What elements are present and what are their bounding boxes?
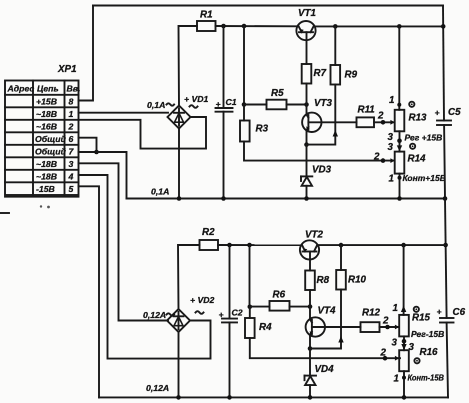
wire C5 bottom to rail <box>443 125 446 199</box>
junction bridge VD1 minus rail <box>178 128 180 199</box>
wire R13 pin1 up <box>398 26 400 109</box>
svg-text:R11: R11 <box>358 105 375 116</box>
junction right vertical <box>441 24 446 29</box>
svg-text:R2: R2 <box>202 227 215 238</box>
svg-text:~18В: ~18В <box>36 172 57 182</box>
adjust symbol R13 <box>409 102 414 107</box>
junction VT2 emitter right <box>443 243 448 248</box>
svg-text:R15: R15 <box>412 313 431 324</box>
svg-text:2: 2 <box>380 348 387 359</box>
bridge rectifier VD1 <box>168 106 191 129</box>
wiper arrow R15 <box>395 325 399 330</box>
svg-text:Конт+15Б: Конт+15Б <box>403 173 446 183</box>
junction R15 line top <box>401 243 406 248</box>
wire node A2 to R4 <box>249 307 251 318</box>
wire R6 to node B2 <box>290 306 311 308</box>
resistor R4 <box>245 318 255 338</box>
potentiometer R16 <box>399 350 409 371</box>
svg-text:Вв.: Вв. <box>67 84 81 94</box>
wire -15V bottom rail <box>99 396 448 398</box>
zener diode VD4 <box>305 349 317 398</box>
svg-text:+: + <box>437 307 442 317</box>
svg-text:~18В: ~18В <box>36 109 57 119</box>
svg-text:3: 3 <box>69 159 74 169</box>
arrow into R14 <box>397 145 402 151</box>
wire pin3 down to bridge VD2 left <box>79 163 169 320</box>
wire R13 pin3 to R14 pin3 <box>399 131 401 151</box>
resistor R8 <box>305 271 315 291</box>
frame tick left edge <box>0 212 9 214</box>
svg-text:R9: R9 <box>345 70 358 81</box>
wire R7 bottom to VT3 collector <box>306 84 308 114</box>
junction pins 6-7 <box>94 150 99 155</box>
resistor R7 <box>302 64 312 84</box>
wire node A2 to R6 <box>250 306 270 308</box>
svg-text:+15В: +15В <box>36 97 57 107</box>
wire pin6 down <box>79 138 97 152</box>
svg-text:+ VD2: + VD2 <box>190 295 215 305</box>
svg-text:Адрес: Адрес <box>7 84 35 94</box>
capacitor C2 <box>222 319 237 323</box>
svg-text:0,1А: 0,1А <box>147 100 165 110</box>
bridge rectifier VD2 <box>167 309 190 332</box>
wire R10 top <box>340 245 342 270</box>
resistor R12 <box>361 322 380 332</box>
svg-text:С1: С1 <box>226 97 237 107</box>
wiper arrow R13 <box>390 120 394 125</box>
wire R5 to node B <box>287 104 307 106</box>
svg-text:R6: R6 <box>273 290 286 301</box>
svg-text:~16В: ~16В <box>36 122 57 132</box>
arrow into R16 <box>401 344 406 350</box>
resistor R10 <box>336 270 346 290</box>
svg-text:VD3: VD3 <box>312 165 332 176</box>
transistor VT3 <box>302 113 321 132</box>
svg-text:1: 1 <box>69 109 74 119</box>
svg-text:+: + <box>216 99 221 109</box>
resistor R3 <box>240 121 250 142</box>
wire pin4 down to bridge VD2 right loop <box>79 175 211 359</box>
junction bridge VD2 minus rail <box>178 332 180 398</box>
junction node B <box>304 102 309 107</box>
svg-text:VD4: VD4 <box>315 364 335 375</box>
svg-text:Общий: Общий <box>35 147 67 157</box>
svg-text:С2: С2 <box>232 308 243 318</box>
wire R16 pin1 down <box>403 371 405 397</box>
svg-text:1: 1 <box>393 303 398 314</box>
svg-text:2: 2 <box>68 122 74 132</box>
svg-text:R12: R12 <box>362 308 381 319</box>
resistor R9 <box>331 65 341 85</box>
arrow on R9 line <box>333 130 338 137</box>
svg-text:1: 1 <box>389 95 394 106</box>
connector XP1 table frame <box>5 81 79 196</box>
svg-text:4: 4 <box>68 172 74 182</box>
wiper arrow R16 <box>395 356 399 361</box>
wire R1 to VT1 collector <box>216 25 297 27</box>
wire VT2 base down to R8 <box>309 252 311 271</box>
wire pin7 join <box>79 151 97 153</box>
svg-text:5: 5 <box>69 184 74 194</box>
transistor VT1 <box>296 21 315 40</box>
junction node A2 top <box>247 243 252 248</box>
capacitor C5 <box>437 121 451 126</box>
svg-text:R7: R7 <box>314 68 327 79</box>
resistor R1 <box>197 21 216 31</box>
resistor R6 <box>270 301 290 311</box>
svg-text:R4: R4 <box>259 322 272 333</box>
junction node A top <box>242 24 247 29</box>
wire pin8 to top rail <box>79 6 94 101</box>
wire VT4 base to R12 <box>312 326 361 328</box>
wire emitter to R10 bottom <box>310 290 341 349</box>
svg-text:VT4: VT4 <box>318 306 337 317</box>
wire R8 bottom to VT4 collector <box>309 290 311 318</box>
junction R13 line top <box>397 24 402 29</box>
wire VT2 emitter to right <box>319 244 446 246</box>
wire pin2 to bridge VD1 right loop <box>79 117 207 149</box>
wire VT3 base to R11 <box>308 121 356 123</box>
svg-text:8: 8 <box>69 97 74 107</box>
wire C6 bottom to rail <box>447 323 448 398</box>
wire node A2 vertical <box>249 245 251 307</box>
transistor VT2 <box>300 240 319 259</box>
potentiometer R13 <box>395 110 405 132</box>
junction node B2 <box>308 304 313 309</box>
svg-text:R10: R10 <box>348 275 367 286</box>
wire C1 bottom to rail <box>223 112 225 199</box>
resistor R5 <box>267 100 287 110</box>
zener diode VD3 <box>301 145 312 199</box>
wire R3 bottom to R14 wiper <box>244 142 395 161</box>
wire R11 to R13 wiper <box>374 121 395 123</box>
svg-text:-15В: -15В <box>36 184 55 194</box>
svg-text:0,12А: 0,12А <box>143 310 166 320</box>
svg-text:R1: R1 <box>200 10 213 21</box>
svg-text:0,1А: 0,1А <box>151 187 169 197</box>
wire right vertical +15V down to C5 <box>443 6 444 121</box>
junction node A2 <box>248 305 253 310</box>
svg-text:+: + <box>435 108 440 118</box>
svg-text:+: + <box>219 310 224 320</box>
junction node A <box>242 102 247 107</box>
resistor R11 <box>357 117 375 127</box>
wire R9 top <box>334 26 336 65</box>
svg-text:R8: R8 <box>317 275 330 286</box>
svg-text:Рег-15В: Рег-15В <box>411 329 444 339</box>
svg-text:VT3: VT3 <box>314 98 333 109</box>
svg-text:2: 2 <box>373 152 380 163</box>
wire top-section common rail <box>127 198 446 200</box>
svg-text:1: 1 <box>389 174 394 185</box>
wire pin1 to bridge VD1 left <box>79 112 169 114</box>
wire VT1 base down to R7 <box>306 32 308 64</box>
svg-text:VT2: VT2 <box>305 230 324 241</box>
junction R9 top <box>333 24 338 29</box>
wire node A to R5 <box>244 104 267 106</box>
capacitor C1 <box>216 108 233 112</box>
wiper arrow R14 <box>390 158 394 163</box>
wire VT1 emitter to right <box>316 25 444 27</box>
svg-text:Цепь: Цепь <box>37 84 59 94</box>
wire pin5 down to -15V rail <box>79 186 100 397</box>
svg-text:1: 1 <box>394 374 399 385</box>
svg-text:XP1: XP1 <box>57 64 77 75</box>
svg-text:R14: R14 <box>408 154 427 165</box>
potentiometer R14 <box>395 152 405 174</box>
svg-text:R16: R16 <box>420 347 439 358</box>
svg-text:Рег +15В: Рег +15В <box>405 133 443 143</box>
wire R15 pin3 to R16 pin3 <box>403 336 405 350</box>
potentiometer R15 <box>399 315 409 337</box>
connector XP1 table text <box>7 84 81 195</box>
adjust symbol R14 <box>410 144 415 149</box>
svg-text:3: 3 <box>388 142 394 153</box>
wire common to top-section rail <box>97 152 127 199</box>
junction C1 top <box>221 24 226 29</box>
svg-text:2: 2 <box>382 316 389 327</box>
wire R12 to R15 wiper <box>380 326 400 328</box>
svg-text:2: 2 <box>377 111 384 122</box>
wire C2 vertical <box>229 245 231 319</box>
adjust symbol R16 <box>414 358 419 363</box>
capacitor C6 <box>440 318 454 323</box>
svg-text:Конт-15В: Конт-15В <box>408 373 445 383</box>
svg-text:С5: С5 <box>448 107 461 118</box>
svg-text:VT1: VT1 <box>298 8 316 19</box>
wire R4 bottom to R16 wiper <box>250 338 400 358</box>
wire +15V top rail <box>93 5 443 7</box>
wire R2 to VT2 collector <box>218 244 301 246</box>
wire VT3 emitter down <box>306 132 308 145</box>
wire emitter to R9 bottom <box>307 85 336 145</box>
arrow on R10 line <box>338 336 343 343</box>
wire right vertical common to C6 <box>445 199 447 319</box>
svg-text:R3: R3 <box>256 124 269 135</box>
wire bridge VD2 plus up to R2 <box>178 245 200 310</box>
svg-text:С6: С6 <box>453 307 466 318</box>
junction R10 top <box>339 243 344 248</box>
wire C2 bottom to rail <box>229 322 231 397</box>
transistor VT4 <box>306 317 325 336</box>
junction C2 top <box>227 243 232 248</box>
wire bridge VD1 plus up to R1 <box>179 26 198 106</box>
svg-text:R5: R5 <box>271 88 284 99</box>
svg-text:R13: R13 <box>409 113 428 124</box>
wire R15 pin1 up <box>403 245 405 315</box>
svg-text:6: 6 <box>69 134 74 144</box>
resistor R2 <box>200 240 219 250</box>
svg-text:Общий: Общий <box>35 134 67 144</box>
wire C1 vertical <box>223 26 225 108</box>
wire VT4 emitter down <box>309 336 311 348</box>
svg-text:+ VD1: + VD1 <box>184 94 209 104</box>
svg-text:3: 3 <box>392 338 398 349</box>
wire node A to R3 <box>243 105 245 121</box>
wire R14 pin1 down <box>399 174 401 199</box>
wire node A vertical <box>243 26 245 105</box>
adjust symbol R15 <box>414 307 419 312</box>
svg-text:0,12А: 0,12А <box>146 383 169 393</box>
svg-text:~18В: ~18В <box>36 159 57 169</box>
